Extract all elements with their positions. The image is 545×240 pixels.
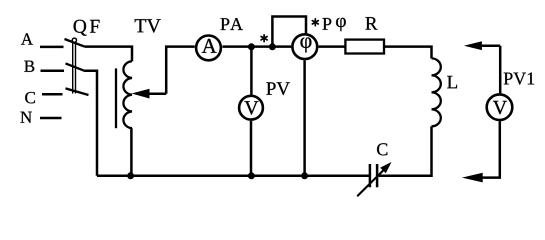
voltmeter PV label: [266, 82, 290, 95]
transformer TV winding: [123, 61, 132, 128]
wire: [42, 93, 63, 96]
node A: [21, 33, 33, 44]
voltmeter PV: [239, 96, 263, 120]
junction dot PV bottom: [248, 172, 255, 179]
node B: [24, 61, 34, 72]
wire PV branch: [250, 47, 253, 95]
junction dot TV bottom: [127, 172, 134, 179]
voltmeter PV1 top probe arrow: [464, 41, 500, 50]
wire TV bottom to bus: [130, 128, 133, 176]
ammeter PA: [196, 36, 221, 61]
transformer TV core bar: [115, 68, 117, 128]
junction dot phase meter bottom: [301, 172, 308, 179]
node N: [20, 112, 31, 123]
asterisk current terminal: [261, 35, 267, 42]
wire voltage loop over phase meter: [272, 17, 306, 47]
wire PV to bus: [250, 121, 253, 176]
wire L bottom to bus: [377, 126, 431, 175]
capacitor C variable arrow: [357, 162, 391, 196]
breaker QF pole A blade: [65, 39, 85, 47]
node C: [25, 92, 35, 103]
breaker QF pole B blade: [66, 63, 84, 70]
ammeter PA label: [221, 18, 243, 30]
breaker QF pole C blade: [66, 88, 89, 95]
transformer TV wiper arrow: [132, 89, 167, 99]
wire PA to phase meter: [222, 45, 291, 48]
capacitor C plates: [370, 164, 377, 187]
inductor L label: [447, 76, 457, 88]
wire phase A to TV: [85, 47, 133, 62]
wire wiper to PA: [166, 47, 195, 94]
voltmeter PV1: [487, 94, 513, 120]
voltmeter PV1 bottom probe arrow: [462, 173, 483, 183]
voltmeter PV1 label: [504, 73, 534, 85]
wire R to L: [384, 47, 432, 59]
phase meter P-phi label: [323, 18, 332, 30]
asterisk voltage terminal: [312, 19, 318, 26]
wire PV1 bottom: [480, 121, 500, 178]
breaker QF pivot circle: [72, 38, 76, 42]
bottom bus wire: [97, 175, 370, 178]
inductor L winding: [432, 58, 441, 126]
capacitor C label: [377, 143, 387, 155]
resistor R: [345, 40, 384, 54]
junction dot PV tap: [248, 43, 255, 50]
phase meter: [292, 34, 317, 59]
wire: [40, 117, 62, 120]
transformer TV label: [135, 19, 161, 32]
breaker QF label: [74, 20, 100, 36]
wire phase meter bottom to bus: [303, 60, 306, 175]
breaker QF linkage bar: [73, 43, 76, 94]
junction dot current-coil tap: [269, 43, 276, 50]
wire phase B down to bus: [84, 71, 98, 176]
wire phase meter to R: [319, 45, 346, 48]
wire: [41, 70, 65, 73]
resistor R label: [365, 17, 377, 29]
wire PV1 top: [499, 46, 502, 94]
wire: [40, 46, 64, 49]
